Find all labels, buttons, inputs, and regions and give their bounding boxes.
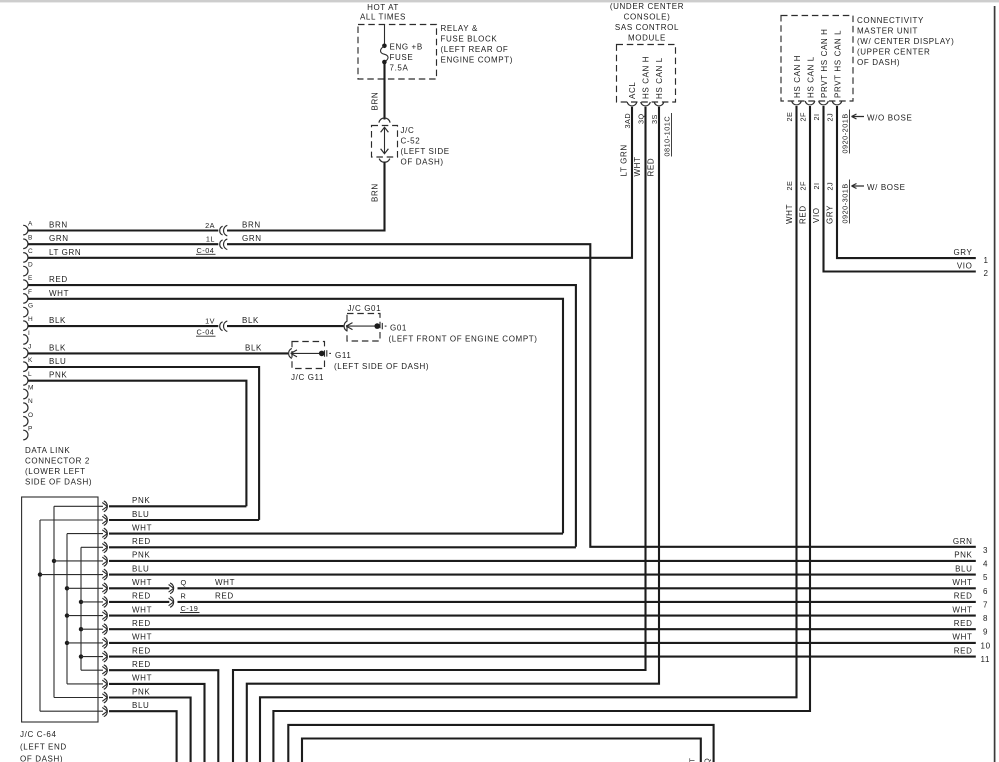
wire row J BLK to ground G11: [28, 343, 289, 353]
wire WHT CMU 2E down-left-down to bottom: [260, 106, 797, 762]
C-64 pin 9 stub: [67, 615, 103, 617]
svg-text:ENG +B: ENG +B: [390, 43, 423, 52]
svg-text:1V: 1V: [205, 317, 215, 326]
C-64 pin 4 stub: [81, 546, 103, 548]
svg-text:2: 2: [984, 269, 989, 278]
svg-text:GRN: GRN: [49, 234, 69, 243]
svg-text:PNK: PNK: [49, 371, 67, 380]
svg-text:2F: 2F: [799, 181, 808, 191]
CMU wire colors WHT RED VIO GRY (rotated): [785, 204, 835, 224]
C-64 pin 4 symbol: [102, 542, 107, 553]
svg-text:N: N: [28, 398, 33, 405]
svg-text:HOT AT: HOT AT: [367, 3, 399, 12]
svg-text:WHT: WHT: [132, 523, 152, 532]
terminal 9 RED: [954, 619, 988, 637]
svg-text:2J: 2J: [826, 113, 835, 122]
DLC2 pin F: [23, 289, 32, 303]
svg-text:FUSE BLOCK: FUSE BLOCK: [441, 35, 498, 44]
DLC2 pin B: [23, 234, 33, 248]
svg-text:J/C C-64: J/C C-64: [20, 730, 57, 739]
svg-text:(LEFT REAR OF: (LEFT REAR OF: [441, 45, 509, 54]
svg-text:HS CAN H: HS CAN H: [642, 56, 651, 99]
svg-text:Q: Q: [181, 578, 187, 587]
svg-text:GRN: GRN: [953, 537, 973, 546]
svg-text:GRN: GRN: [242, 234, 262, 243]
svg-text:RED: RED: [132, 646, 151, 655]
C-64 pin 13 symbol: [102, 665, 107, 676]
svg-text:BLU: BLU: [955, 564, 972, 573]
C-64 pin 7 symbol: [102, 583, 107, 594]
connectivity master unit dashed box: [781, 16, 853, 102]
svg-text:7: 7: [983, 600, 988, 609]
svg-text:BLK: BLK: [245, 343, 262, 352]
terminal 10 WHT: [952, 633, 990, 651]
wire C-64 row 16 BLU down to bottom edge: [109, 711, 177, 762]
svg-text:0920-301B: 0920-301B: [841, 183, 850, 223]
svg-text:3AD: 3AD: [623, 113, 632, 129]
svg-text:F: F: [28, 289, 32, 296]
svg-text:BLK: BLK: [49, 316, 66, 325]
C-64 pin 12 stub: [81, 656, 103, 658]
SAS connector 0810-101C (rotated, underlined): [663, 113, 672, 157]
C-64 pin 8 symbol: [102, 597, 107, 608]
DLC2 pin L: [23, 371, 32, 385]
svg-text:Q: Q: [703, 758, 712, 762]
svg-text:(LEFT END: (LEFT END: [20, 743, 67, 752]
DLC2 pin H: [23, 316, 33, 330]
svg-text:A: A: [28, 221, 33, 228]
wire BRN fuse to J/C C-52: [383, 63, 385, 120]
wire row H BLK to ground G01: [28, 325, 219, 327]
svg-text:2E: 2E: [785, 112, 794, 122]
C-64 pin 11 stub: [67, 642, 103, 644]
svg-text:WHT: WHT: [785, 204, 794, 224]
svg-text:GRY: GRY: [826, 205, 835, 224]
svg-text:WHT: WHT: [132, 633, 152, 642]
C-64 pin 6 symbol: [102, 569, 107, 580]
C-64 pin 3 symbol: [102, 528, 107, 539]
svg-text:T: T: [688, 758, 697, 762]
svg-text:R: R: [181, 592, 187, 601]
wire C-64 row 7 WHT to terminal 6 (through C-19): [109, 587, 169, 589]
DLC2 pin P: [23, 426, 33, 440]
CMU pin socket arcs: [792, 101, 842, 105]
wire C-64 row 14 WHT down to bottom edge: [109, 684, 205, 762]
C-64 pin 16 symbol: [102, 706, 107, 717]
DLC2 pin M: [23, 385, 34, 399]
inline connector 1L (C-04) row B: [196, 234, 262, 255]
svg-text:C: C: [28, 248, 33, 255]
C-64 internal bus PNK: [53, 506, 55, 697]
terminal 3 GRN: [953, 537, 988, 555]
junction block J/C C-64 box: [22, 497, 98, 722]
svg-text:H: H: [28, 316, 33, 323]
label DATA LINK CONNECTOR 2: [25, 446, 92, 487]
svg-text:RED: RED: [132, 619, 151, 628]
svg-text:6: 6: [983, 587, 988, 596]
svg-text:BLU: BLU: [132, 510, 149, 519]
ground G01: [344, 304, 537, 344]
terminal 7 RED: [954, 592, 988, 610]
page top border: [0, 0, 999, 2]
DLC2 pin G: [23, 303, 33, 317]
wire C-64 row 8 RED to terminal 7 (through C-19): [109, 601, 169, 603]
ground G11: [289, 342, 430, 382]
svg-text:RED: RED: [954, 646, 973, 655]
svg-text:BRN: BRN: [49, 221, 68, 230]
svg-text:HS CAN L: HS CAN L: [655, 57, 664, 99]
DLC2 pin E: [23, 275, 33, 289]
C-64 pin 2 symbol: [102, 515, 107, 526]
wire C-64 row 11 WHT to terminal 10: [109, 642, 976, 644]
svg-text:PNK: PNK: [132, 496, 150, 505]
C-64 internal bus BLU: [39, 520, 41, 711]
svg-text:BRN: BRN: [371, 183, 380, 202]
svg-text:G: G: [28, 303, 33, 310]
DLC2 pin K: [23, 357, 33, 371]
terminal 2 VIO: [957, 262, 989, 279]
C-64 pin 1 symbol: [102, 501, 107, 512]
svg-text:3: 3: [983, 546, 988, 555]
terminal 11 RED: [954, 646, 990, 664]
svg-text:OF DASH): OF DASH): [20, 755, 63, 762]
inline connector 1V (C-04) row H: [196, 316, 259, 337]
svg-text:RED: RED: [954, 619, 973, 628]
svg-text:J: J: [28, 344, 32, 351]
svg-text:(W/ CENTER DISPLAY): (W/ CENTER DISPLAY): [857, 37, 954, 46]
wire C-64 row 1 PNK: [109, 505, 246, 507]
svg-text:2A: 2A: [205, 221, 215, 230]
svg-text:L: L: [28, 371, 32, 378]
svg-text:BRN: BRN: [242, 221, 261, 230]
DLC2 pin N: [23, 398, 33, 412]
C-64 pin 6 stub: [40, 574, 103, 576]
svg-text:SIDE OF DASH): SIDE OF DASH): [25, 478, 92, 487]
svg-text:WHT: WHT: [952, 605, 972, 614]
svg-text:P: P: [28, 426, 33, 433]
C-64 pin 12 symbol: [102, 651, 107, 662]
svg-text:LT GRN: LT GRN: [620, 144, 629, 176]
svg-text:BLU: BLU: [49, 357, 66, 366]
svg-text:I: I: [28, 330, 30, 337]
svg-text:2J: 2J: [826, 182, 835, 191]
svg-text:MODULE: MODULE: [628, 34, 666, 43]
label J/C C-64: [20, 730, 67, 762]
svg-text:WHT: WHT: [952, 578, 972, 587]
wire RED SAS HS CAN L down-left-down to bottom: [247, 107, 659, 762]
svg-text:E: E: [28, 275, 33, 282]
svg-text:1: 1: [984, 256, 989, 265]
svg-text:RED: RED: [132, 660, 151, 669]
svg-text:WHT: WHT: [132, 674, 152, 683]
svg-text:2I: 2I: [812, 113, 821, 120]
svg-text:J/C G11: J/C G11: [291, 373, 324, 382]
DLC2 pin C: [23, 248, 33, 262]
svg-text:PNK: PNK: [132, 687, 150, 696]
wire GRY CMU 2J down to terminal 1: [837, 106, 976, 258]
svg-text:7.5A: 7.5A: [390, 64, 409, 73]
svg-text:ALL TIMES: ALL TIMES: [360, 13, 406, 22]
svg-text:VIO: VIO: [957, 262, 973, 271]
svg-text:RED: RED: [799, 205, 808, 224]
C-64 pin 10 stub: [81, 628, 103, 630]
C-64 pin 9 symbol: [102, 610, 107, 621]
terminal 1 GRY: [953, 248, 988, 265]
svg-text:PNK: PNK: [954, 551, 972, 560]
wire C-64 row 4 RED: [109, 546, 576, 548]
svg-text:WHT: WHT: [215, 578, 235, 587]
inline connector 2A (C-04) row A: [205, 221, 261, 236]
svg-text:2F: 2F: [799, 112, 808, 122]
svg-text:WHT: WHT: [132, 578, 152, 587]
DLC2 pin A: [23, 221, 33, 235]
C-64 pin 15 stub: [54, 697, 103, 699]
svg-text:PNK: PNK: [132, 551, 150, 560]
DLC2 pin I: [23, 330, 30, 344]
svg-text:K: K: [28, 357, 33, 364]
svg-text:(UPPER CENTER: (UPPER CENTER: [857, 48, 930, 57]
wire C-64 row 12 RED to terminal 11: [109, 656, 976, 658]
svg-text:8: 8: [983, 614, 988, 623]
svg-text:WHT: WHT: [952, 633, 972, 642]
svg-text:4: 4: [983, 559, 988, 568]
svg-text:VIO: VIO: [812, 207, 821, 223]
junction connector J/C C-52: [372, 118, 450, 167]
connector label C-19 (underlined): [180, 604, 200, 613]
svg-text:9: 9: [983, 628, 988, 637]
svg-text:HS CAN L: HS CAN L: [807, 56, 816, 98]
DLC2 pin O: [23, 412, 33, 426]
C-64 pin 2 stub: [40, 519, 103, 521]
C-64 pin 11 symbol: [102, 638, 107, 649]
svg-text:(LEFT FRONT OF ENGINE COMPT): (LEFT FRONT OF ENGINE COMPT): [389, 335, 538, 344]
C-64 pin 10 symbol: [102, 624, 107, 635]
svg-text:BLK: BLK: [49, 343, 66, 352]
svg-text:OF DASH): OF DASH): [857, 58, 900, 67]
svg-text:W/ BOSE: W/ BOSE: [867, 183, 906, 192]
wire C-64 row 13 RED down to bottom edge: [109, 670, 218, 762]
wire C-64 row 3 WHT: [109, 533, 563, 535]
svg-text:5: 5: [983, 573, 988, 582]
svg-text:RED: RED: [215, 592, 234, 601]
bridge wire bottom left-right outer: [288, 725, 713, 762]
svg-text:RED: RED: [954, 592, 973, 601]
svg-text:10: 10: [981, 641, 991, 650]
C-64 bus junction dots: [38, 559, 83, 659]
C-64 pin 13 stub: [81, 669, 103, 671]
svg-text:CONSOLE): CONSOLE): [624, 13, 671, 22]
svg-text:RED: RED: [132, 592, 151, 601]
arrow W/ BOSE: [852, 183, 906, 192]
C-64 pin 14 symbol: [102, 679, 107, 690]
svg-text:DATA LINK: DATA LINK: [25, 446, 70, 455]
svg-text:PRVT HS CAN H: PRVT HS CAN H: [820, 28, 829, 98]
svg-text:C-19: C-19: [181, 604, 199, 613]
svg-text:RED: RED: [49, 275, 68, 284]
wire C-64 row 15 PNK down to bottom edge: [109, 698, 191, 762]
C-64 pin 5 stub: [54, 560, 103, 562]
svg-text:BLU: BLU: [132, 564, 149, 573]
terminal 8 WHT: [952, 605, 988, 623]
svg-text:BLK: BLK: [242, 316, 259, 325]
svg-text:0920-201B: 0920-201B: [841, 113, 850, 153]
svg-text:2I: 2I: [812, 182, 821, 189]
CMU connector 0920-301B (rotated, underlined): [841, 180, 850, 224]
wire row B GRN to terminal 3: [28, 244, 976, 547]
wire C-64 row 10 RED to terminal 9: [109, 628, 976, 630]
wire row K BLU to J/C C-64 row 2: [28, 357, 260, 520]
svg-text:D: D: [28, 262, 33, 269]
page right border: [994, 6, 996, 762]
SAS control module header: [610, 2, 684, 43]
svg-text:C-52: C-52: [401, 137, 421, 146]
svg-text:GRY: GRY: [953, 248, 972, 257]
wire BRN C-52 down to row A corner: [227, 162, 385, 231]
svg-text:J/C G01: J/C G01: [348, 304, 382, 313]
arrow W/O BOSE: [852, 114, 913, 123]
wire C-64 row 2 BLU: [109, 519, 259, 521]
SAS control module dashed box: [617, 45, 676, 103]
bridge wire bottom left-right inner: [302, 739, 701, 762]
CMU pin numbers 2E 2F 2I 2J (rotated, w/o bose): [785, 112, 835, 122]
svg-text:C-04: C-04: [197, 246, 215, 255]
svg-text:LT GRN: LT GRN: [49, 248, 81, 257]
CMU connector 0920-201B (rotated, underlined): [841, 110, 850, 154]
svg-text:W/O BOSE: W/O BOSE: [867, 114, 912, 123]
wire row E RED to J/C C-64 row 4: [28, 275, 576, 547]
svg-text:3Q: 3Q: [637, 113, 646, 124]
svg-text:CONNECTIVITY: CONNECTIVITY: [857, 16, 924, 25]
C-64 internal bus WHT: [66, 534, 68, 684]
svg-text:MASTER UNIT: MASTER UNIT: [857, 27, 918, 36]
C-64 internal bus RED: [80, 547, 82, 670]
inline connector C-19 pin R: [169, 592, 234, 608]
svg-text:0810-101C: 0810-101C: [663, 116, 672, 157]
wire WHT SAS HS CAN H down-left-down to bottom: [233, 107, 646, 762]
svg-text:PRVT HS CAN L: PRVT HS CAN L: [834, 30, 843, 98]
svg-text:(UNDER CENTER: (UNDER CENTER: [610, 2, 684, 11]
C-64 pin 15 symbol: [102, 692, 107, 703]
svg-text:G01: G01: [390, 324, 407, 333]
svg-text:WHT: WHT: [633, 156, 642, 176]
svg-text:BRN: BRN: [371, 92, 380, 111]
svg-text:O: O: [28, 412, 33, 419]
svg-text:RED: RED: [132, 537, 151, 546]
wire row F WHT to J/C C-64 row 3: [28, 289, 564, 533]
wire C-64 row 9 WHT to terminal 8: [109, 615, 976, 617]
svg-text:B: B: [28, 234, 33, 241]
svg-text:C-04: C-04: [197, 328, 215, 337]
wire RED CMU 2F down-left-down to bottom: [273, 106, 810, 762]
relay & fuse block dashed box: [358, 25, 437, 80]
wire C-64 row 6 BLU to terminal 5: [109, 574, 976, 576]
svg-text:(LEFT SIDE OF DASH): (LEFT SIDE OF DASH): [334, 362, 429, 371]
terminal 5 BLU: [955, 564, 988, 582]
wire C-64 row 5 PNK to terminal 4: [109, 560, 976, 562]
svg-text:ENGINE COMPT): ENGINE COMPT): [441, 56, 514, 65]
C-64 pin 16 stub: [40, 710, 103, 712]
C-64 pin 14 stub: [67, 683, 103, 685]
svg-text:WHT: WHT: [132, 605, 152, 614]
inline connector C-19 pin Q: [169, 578, 235, 594]
svg-text:RELAY &: RELAY &: [441, 24, 478, 33]
DLC2 pin D: [23, 262, 33, 276]
svg-text:11: 11: [981, 655, 991, 664]
wire row L PNK to J/C C-64 row 1: [28, 371, 247, 507]
wire LT GRN from SAS ACL down to DLC2 row C: [28, 107, 633, 258]
C-64 pin 7 stub: [67, 587, 103, 589]
C-64 pin 1 stub: [54, 505, 103, 507]
svg-text:(LOWER LEFT: (LOWER LEFT: [25, 467, 86, 476]
svg-text:BLU: BLU: [132, 701, 149, 710]
svg-text:2E: 2E: [785, 181, 794, 191]
connectivity master unit header: [857, 16, 954, 67]
svg-text:G11: G11: [335, 351, 351, 360]
svg-text:HS CAN H: HS CAN H: [793, 55, 802, 98]
svg-text:SAS CONTROL: SAS CONTROL: [615, 23, 679, 32]
DLC2 pin J: [23, 344, 31, 358]
svg-text:RED: RED: [647, 158, 656, 177]
fuse ENG +B 7.5A: [381, 25, 423, 73]
wire VIO CMU 2I down to terminal 2: [824, 106, 976, 272]
terminal 4 PNK: [954, 551, 988, 569]
svg-text:OF DASH): OF DASH): [401, 158, 444, 167]
C-64 pin 3 stub: [67, 533, 103, 535]
svg-text:CONNECTOR 2: CONNECTOR 2: [25, 457, 90, 466]
terminal 6 WHT: [952, 578, 988, 596]
svg-text:(LEFT SIDE: (LEFT SIDE: [401, 147, 450, 156]
svg-text:1L: 1L: [206, 235, 215, 244]
CMU pin numbers 2E 2F 2I 2J (rotated, w/ bose): [785, 181, 835, 191]
svg-text:ACL: ACL: [628, 82, 637, 99]
svg-text:J/C: J/C: [401, 126, 415, 135]
svg-text:WHT: WHT: [49, 289, 69, 298]
svg-text:3S: 3S: [650, 114, 659, 124]
label RELAY & FUSE BLOCK: [441, 24, 514, 65]
wire row A BRN: [28, 229, 219, 231]
C-64 pin 8 stub: [81, 601, 103, 603]
C-64 pin 5 symbol: [102, 556, 107, 567]
svg-text:M: M: [28, 385, 34, 392]
svg-text:FUSE: FUSE: [390, 53, 414, 62]
label HOT AT ALL TIMES: [360, 3, 406, 22]
SAS pin socket arcs: [627, 102, 664, 106]
